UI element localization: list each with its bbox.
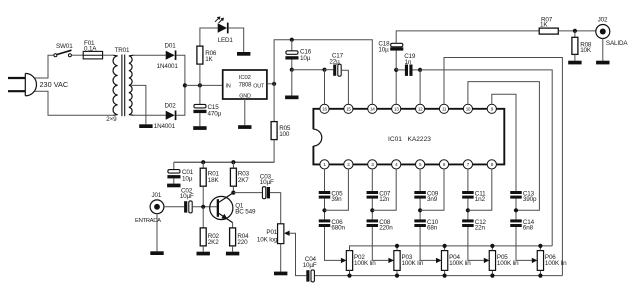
wire C03 to P01 (270, 193, 281, 224)
potentiometer P06 100K lin (537, 251, 543, 271)
svg-text:220: 220 (237, 239, 248, 246)
pin 8 (487, 160, 496, 169)
ground C01 (167, 184, 180, 188)
node R03 top (231, 160, 235, 164)
wire: mains top from plug to switch (34, 55, 54, 78)
svg-text:68n: 68n (427, 225, 438, 232)
wire C11 to C12 (467, 199, 469, 220)
pin 13 (392, 104, 401, 113)
potentiometer P02 100K lin (346, 251, 352, 271)
svg-text:1K: 1K (205, 56, 213, 63)
svg-text:10µF: 10µF (303, 262, 317, 269)
wire R05 to preamp rail (174, 140, 274, 163)
node C13/C14 junction (514, 208, 518, 212)
svg-text:220n: 220n (379, 225, 393, 232)
capacitor C04 10uF (306, 270, 309, 281)
node Q1 base (201, 205, 205, 209)
pin 1 (320, 160, 329, 169)
node pot bottom (538, 274, 542, 278)
transformer core (121, 55, 123, 117)
wire C09 to C10 (419, 199, 421, 220)
wire LED cathode to ground (229, 28, 244, 52)
svg-text:1n2: 1n2 (475, 196, 486, 203)
svg-text:SW01: SW01 (56, 43, 73, 50)
diode D01 1N4001 (166, 51, 175, 60)
wire C13 column (515, 199, 517, 220)
wire secondary center tap (131, 85, 146, 124)
svg-text:13: 13 (394, 106, 399, 111)
svg-text:J02: J02 (598, 16, 608, 23)
svg-text:16: 16 (322, 106, 327, 111)
wire IC02 GND to ground (244, 99, 246, 125)
svg-text:GND: GND (239, 94, 251, 100)
svg-text:10K log: 10K log (257, 237, 278, 244)
capacitor C11 1n2 (462, 191, 474, 194)
wire pin 11 to bottom rail (444, 58, 562, 276)
capacitor C03 10uF (262, 187, 265, 199)
resistor R06 1K (197, 46, 203, 64)
node pot top (490, 244, 494, 248)
node pot bottom (347, 274, 351, 278)
svg-text:10µF: 10µF (180, 193, 194, 200)
wire 8V top rail to pin 14 (274, 40, 372, 105)
resistor R04 220 (232, 223, 234, 228)
wire rectifier node to IC02 IN (185, 84, 223, 86)
svg-text:1K: 1K (540, 22, 548, 29)
voltage regulator IC02 7808 (223, 70, 267, 99)
node Q1 collector (231, 191, 235, 195)
node pot top (538, 244, 542, 248)
pin 14 (368, 104, 377, 113)
svg-text:22µ: 22µ (329, 58, 340, 65)
LED1 (218, 23, 227, 32)
svg-text:1N4001: 1N4001 (157, 63, 179, 70)
wire R06 top to LED anode (200, 28, 218, 46)
wire even pin bend (325, 169, 349, 210)
pin 2 (344, 160, 353, 169)
pin 12 (416, 104, 425, 113)
wire D01/D02 cathodes to node (176, 55, 185, 115)
wire C18 to R07 (396, 31, 539, 43)
diode D02 1N4001 (166, 111, 175, 120)
AC plug (8, 73, 36, 95)
svg-text:D01: D01 (165, 43, 177, 50)
svg-text:12n: 12n (379, 196, 390, 203)
svg-text:6n8: 6n8 (523, 225, 534, 232)
svg-text:OUT: OUT (253, 83, 265, 89)
capacitor C09 3n9 (414, 191, 426, 194)
ground IC02 (238, 125, 251, 129)
potentiometer P01 10K log (278, 224, 284, 244)
svg-text:390p: 390p (523, 196, 537, 203)
svg-text:IC01 KA2223: IC01 KA2223 (388, 136, 431, 143)
node pot bottom (443, 274, 447, 278)
wire pot-bottom rail (315, 275, 563, 277)
potentiometer P04 100K lin (441, 251, 447, 271)
node rectifier output (183, 83, 187, 87)
pin 15 (344, 104, 353, 113)
op-amp IC01 KA2223 body (313, 109, 504, 165)
node pin16/C17 (322, 68, 326, 72)
svg-text:100K lin: 100K lin (449, 260, 471, 267)
node 8V rail (272, 82, 276, 86)
wire J02 to ground (602, 39, 604, 61)
capacitor C06 680n (319, 219, 331, 222)
node C16 top (290, 38, 294, 42)
svg-text:10µ: 10µ (182, 175, 193, 182)
svg-text:0.1A: 0.1A (84, 46, 97, 53)
pin 3 (368, 160, 377, 169)
node pot bottom (395, 274, 399, 278)
resistor R02 2K2 (202, 207, 204, 228)
capacitor C17 22u (325, 69, 334, 71)
ground P01 (274, 272, 287, 276)
wire secondary top to D01 (133, 54, 166, 56)
pin 6 (439, 160, 448, 169)
svg-text:LED1: LED1 (218, 37, 234, 44)
wire C05 to C06 (324, 199, 326, 220)
svg-text:2K2: 2K2 (208, 239, 219, 246)
wire C10 to P04 wiper (420, 227, 436, 260)
wire pin 10 to C13/C14 junction (468, 82, 540, 211)
svg-text:100K lin: 100K lin (497, 260, 519, 267)
svg-text:J01: J01 (152, 192, 162, 199)
svg-text:2K7: 2K7 (238, 177, 249, 184)
node pot top (443, 244, 447, 248)
svg-text:680n: 680n (331, 225, 345, 232)
wire even pin bend (372, 169, 396, 210)
svg-text:100K lin: 100K lin (402, 260, 424, 267)
wire C06 to P02 wiper (325, 227, 341, 260)
svg-text:10µF: 10µF (260, 179, 274, 186)
node pot top (395, 244, 399, 248)
wire IC02 OUT (267, 83, 274, 85)
potentiometer P03 100K lin (394, 251, 400, 271)
wire C02 to base (192, 206, 217, 208)
svg-text:10: 10 (466, 106, 471, 111)
capacitor C07 12n (367, 191, 379, 194)
ground LED (237, 52, 250, 56)
svg-text:10K: 10K (580, 47, 592, 54)
svg-text:10µ: 10µ (378, 46, 389, 53)
pin 11 (439, 104, 448, 113)
ground J02 (596, 61, 609, 65)
svg-text:IN: IN (226, 83, 231, 89)
svg-text:1n: 1n (405, 59, 412, 66)
ground R08 (568, 61, 581, 65)
pin 4 (392, 160, 401, 169)
svg-text:IC02: IC02 (239, 75, 251, 81)
svg-text:230 VAC: 230 VAC (40, 80, 69, 89)
wire pin to C11 (467, 169, 469, 191)
resistor R05 100 (273, 84, 275, 122)
resistor R01 18K (202, 162, 204, 168)
pin 5 (416, 160, 425, 169)
wire pin 9 to C13 (492, 94, 516, 191)
pin 10 (463, 104, 472, 113)
ground C16 (285, 96, 298, 100)
node C11/C12 junction (466, 208, 470, 212)
capacitor C18 10u (395, 51, 397, 70)
wire pin to C09 (419, 169, 421, 191)
pin 16 (320, 104, 329, 113)
svg-text:100K lin: 100K lin (545, 260, 567, 267)
svg-text:14: 14 (370, 106, 375, 111)
transistor Q1 BC549 (210, 196, 233, 219)
node R01 top (201, 160, 205, 164)
switch SW01 (54, 50, 72, 57)
wire pin to C07 (371, 169, 373, 191)
wire R07 to J02 (558, 30, 596, 32)
svg-text:7808: 7808 (239, 83, 253, 89)
svg-text:1N4001: 1N4001 (154, 123, 176, 130)
wire even pin bend (468, 169, 492, 210)
wire: mains bottom from plug to transformer primary bottom (34, 91, 113, 115)
P01 wiper (284, 231, 290, 236)
wire C16 to pin 16 (292, 69, 325, 71)
wire C16 to ground (291, 70, 293, 96)
ground R02 (197, 252, 210, 256)
capacitor C15 470u (199, 85, 201, 104)
wire fuse to transformer (103, 54, 114, 56)
capacitor C05 39n (319, 191, 331, 194)
pin 9 (487, 104, 496, 113)
wire pot-top bus (350, 246, 553, 251)
wire J01 to C02 (164, 206, 184, 208)
capacitor C10 68n (414, 219, 426, 222)
wire switch to fuse (71, 54, 83, 56)
svg-text:100K lin: 100K lin (354, 260, 376, 267)
node C07/C08 junction (370, 208, 374, 212)
wire preamp supply rail (174, 161, 274, 163)
resistor R03 2K7 (232, 162, 234, 168)
potentiometer P05 100K lin (489, 251, 495, 271)
wire C08 to P03 wiper (372, 227, 388, 260)
transformer TR01 primary winding (113, 56, 118, 115)
wire C14 to P06 wiper (516, 227, 532, 260)
svg-text:100: 100 (279, 131, 290, 138)
svg-text:SALIDA: SALIDA (606, 40, 628, 47)
capacitor C16 10u (291, 40, 293, 51)
capacitor C12 22n (462, 219, 474, 222)
capacitor C01 10u (173, 162, 175, 169)
resistor R07 1K (539, 28, 558, 34)
node R06/C15 (198, 83, 202, 87)
resistor R08 10K (574, 31, 576, 37)
wire C12 to P05 wiper (468, 227, 484, 260)
svg-text:18K: 18K (208, 177, 220, 184)
transformer TR01 secondary winding (129, 56, 132, 115)
ground J01 (150, 251, 163, 255)
capacitor C19 1n (396, 69, 405, 71)
fuse F01 0.1A (83, 54, 103, 56)
wire P01 to ground (280, 244, 282, 272)
wire J01 to ground (156, 214, 158, 252)
svg-text:15: 15 (346, 106, 351, 111)
wire pin to C05 (324, 169, 326, 191)
wire C17 to pin 15 (341, 70, 348, 104)
capacitor C08 220n (367, 219, 379, 222)
svg-text:10µ: 10µ (300, 55, 311, 62)
svg-text:BC 549: BC 549 (235, 208, 256, 215)
ground C15 (193, 126, 206, 130)
svg-text:2×9: 2×9 (106, 116, 117, 123)
node C09/C10 junction (418, 208, 422, 212)
svg-text:3n9: 3n9 (427, 196, 438, 203)
pin 7 (463, 160, 472, 169)
capacitor C14 6n8 (510, 219, 522, 222)
wire even pin bend (420, 169, 444, 210)
svg-text:P01: P01 (266, 229, 277, 236)
svg-text:22n: 22n (475, 225, 486, 232)
capacitor C13 390p (510, 191, 522, 194)
wire pin 12 net to pot-top bus (420, 70, 552, 246)
wire secondary bottom to D02 (133, 114, 166, 116)
wire C07 to C08 (371, 199, 373, 220)
node pot bottom (490, 274, 494, 278)
node C16 bottom (290, 68, 294, 72)
ground center tap (139, 124, 152, 128)
node C05/C06 junction (322, 208, 326, 212)
node pin 12 (418, 68, 422, 72)
capacitor C02 10uF (184, 201, 187, 212)
svg-text:470µ: 470µ (208, 110, 222, 117)
node pin13/C18/C19 (394, 68, 398, 72)
node R08 (573, 29, 577, 33)
connector J02 SALIDA (596, 25, 610, 39)
wire collector to C03 (233, 192, 262, 194)
svg-text:TR01: TR01 (115, 47, 130, 54)
wire pin 13 riser (395, 70, 397, 104)
svg-text:D02: D02 (165, 102, 177, 109)
ground R04 (226, 252, 239, 256)
svg-text:39n: 39n (331, 196, 342, 203)
connector J01 ENTRADA (150, 200, 164, 214)
